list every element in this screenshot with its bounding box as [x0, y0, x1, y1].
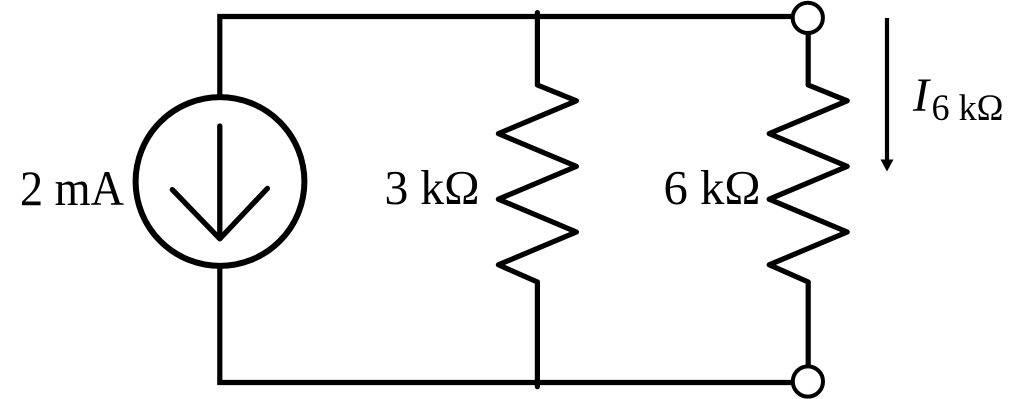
terminal node A (top right, open circle): [793, 3, 823, 33]
current source I1 arrow head: [172, 188, 267, 238]
svg-text:3 kΩ: 3 kΩ: [385, 160, 480, 215]
current arrow I_6k head: [881, 160, 894, 172]
current source I1 circle: [136, 97, 305, 266]
svg-text:I: I: [912, 69, 931, 122]
wire: right branch bottom stub: [806, 282, 811, 370]
resistor R2 6 kOhm: [769, 85, 847, 282]
current arrow I_6k shaft: [885, 18, 889, 161]
resistor R1 3 kOhm: [498, 13, 576, 387]
wire: bottom rail from left branch to right terminal: [220, 264, 792, 383]
terminal node B (bottom right, open circle): [793, 366, 823, 396]
svg-text:6 kΩ: 6 kΩ: [664, 160, 761, 215]
svg-text:6 kΩ: 6 kΩ: [932, 88, 1004, 129]
current source I1 arrow shaft: [217, 126, 222, 236]
wire: right branch top stub: [806, 30, 811, 85]
wire: top rail from left branch to right terminal: [220, 17, 792, 101]
svg-text:2 mA: 2 mA: [20, 160, 124, 216]
